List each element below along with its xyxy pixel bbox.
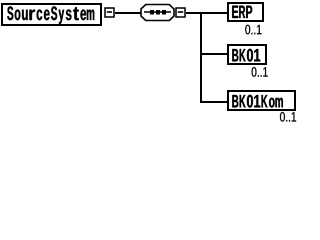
sequence compositor (octagon) [141,5,174,21]
occurrence label 0..1 (BK01Kom) [280,112,296,122]
expand handle 2 (minus) [176,8,185,17]
element box SourceSystem [2,4,101,25]
element box BK01 [228,45,266,64]
wire: branch to BK01 [200,53,228,55]
wire: vertical trunk [200,12,202,102]
element box ERP [228,3,263,21]
element box BK01Kom [228,91,295,110]
occurrence label 0..1 (BK01) [252,67,268,77]
wire: handle 1 to sequence compositor [115,12,142,14]
wire: branch to BK01Kom [200,101,228,103]
occurrence label 0..1 (ERP) [245,25,261,35]
expand handle 1 (minus) [105,8,114,17]
wire: handle 2 to child ERP [186,12,228,14]
